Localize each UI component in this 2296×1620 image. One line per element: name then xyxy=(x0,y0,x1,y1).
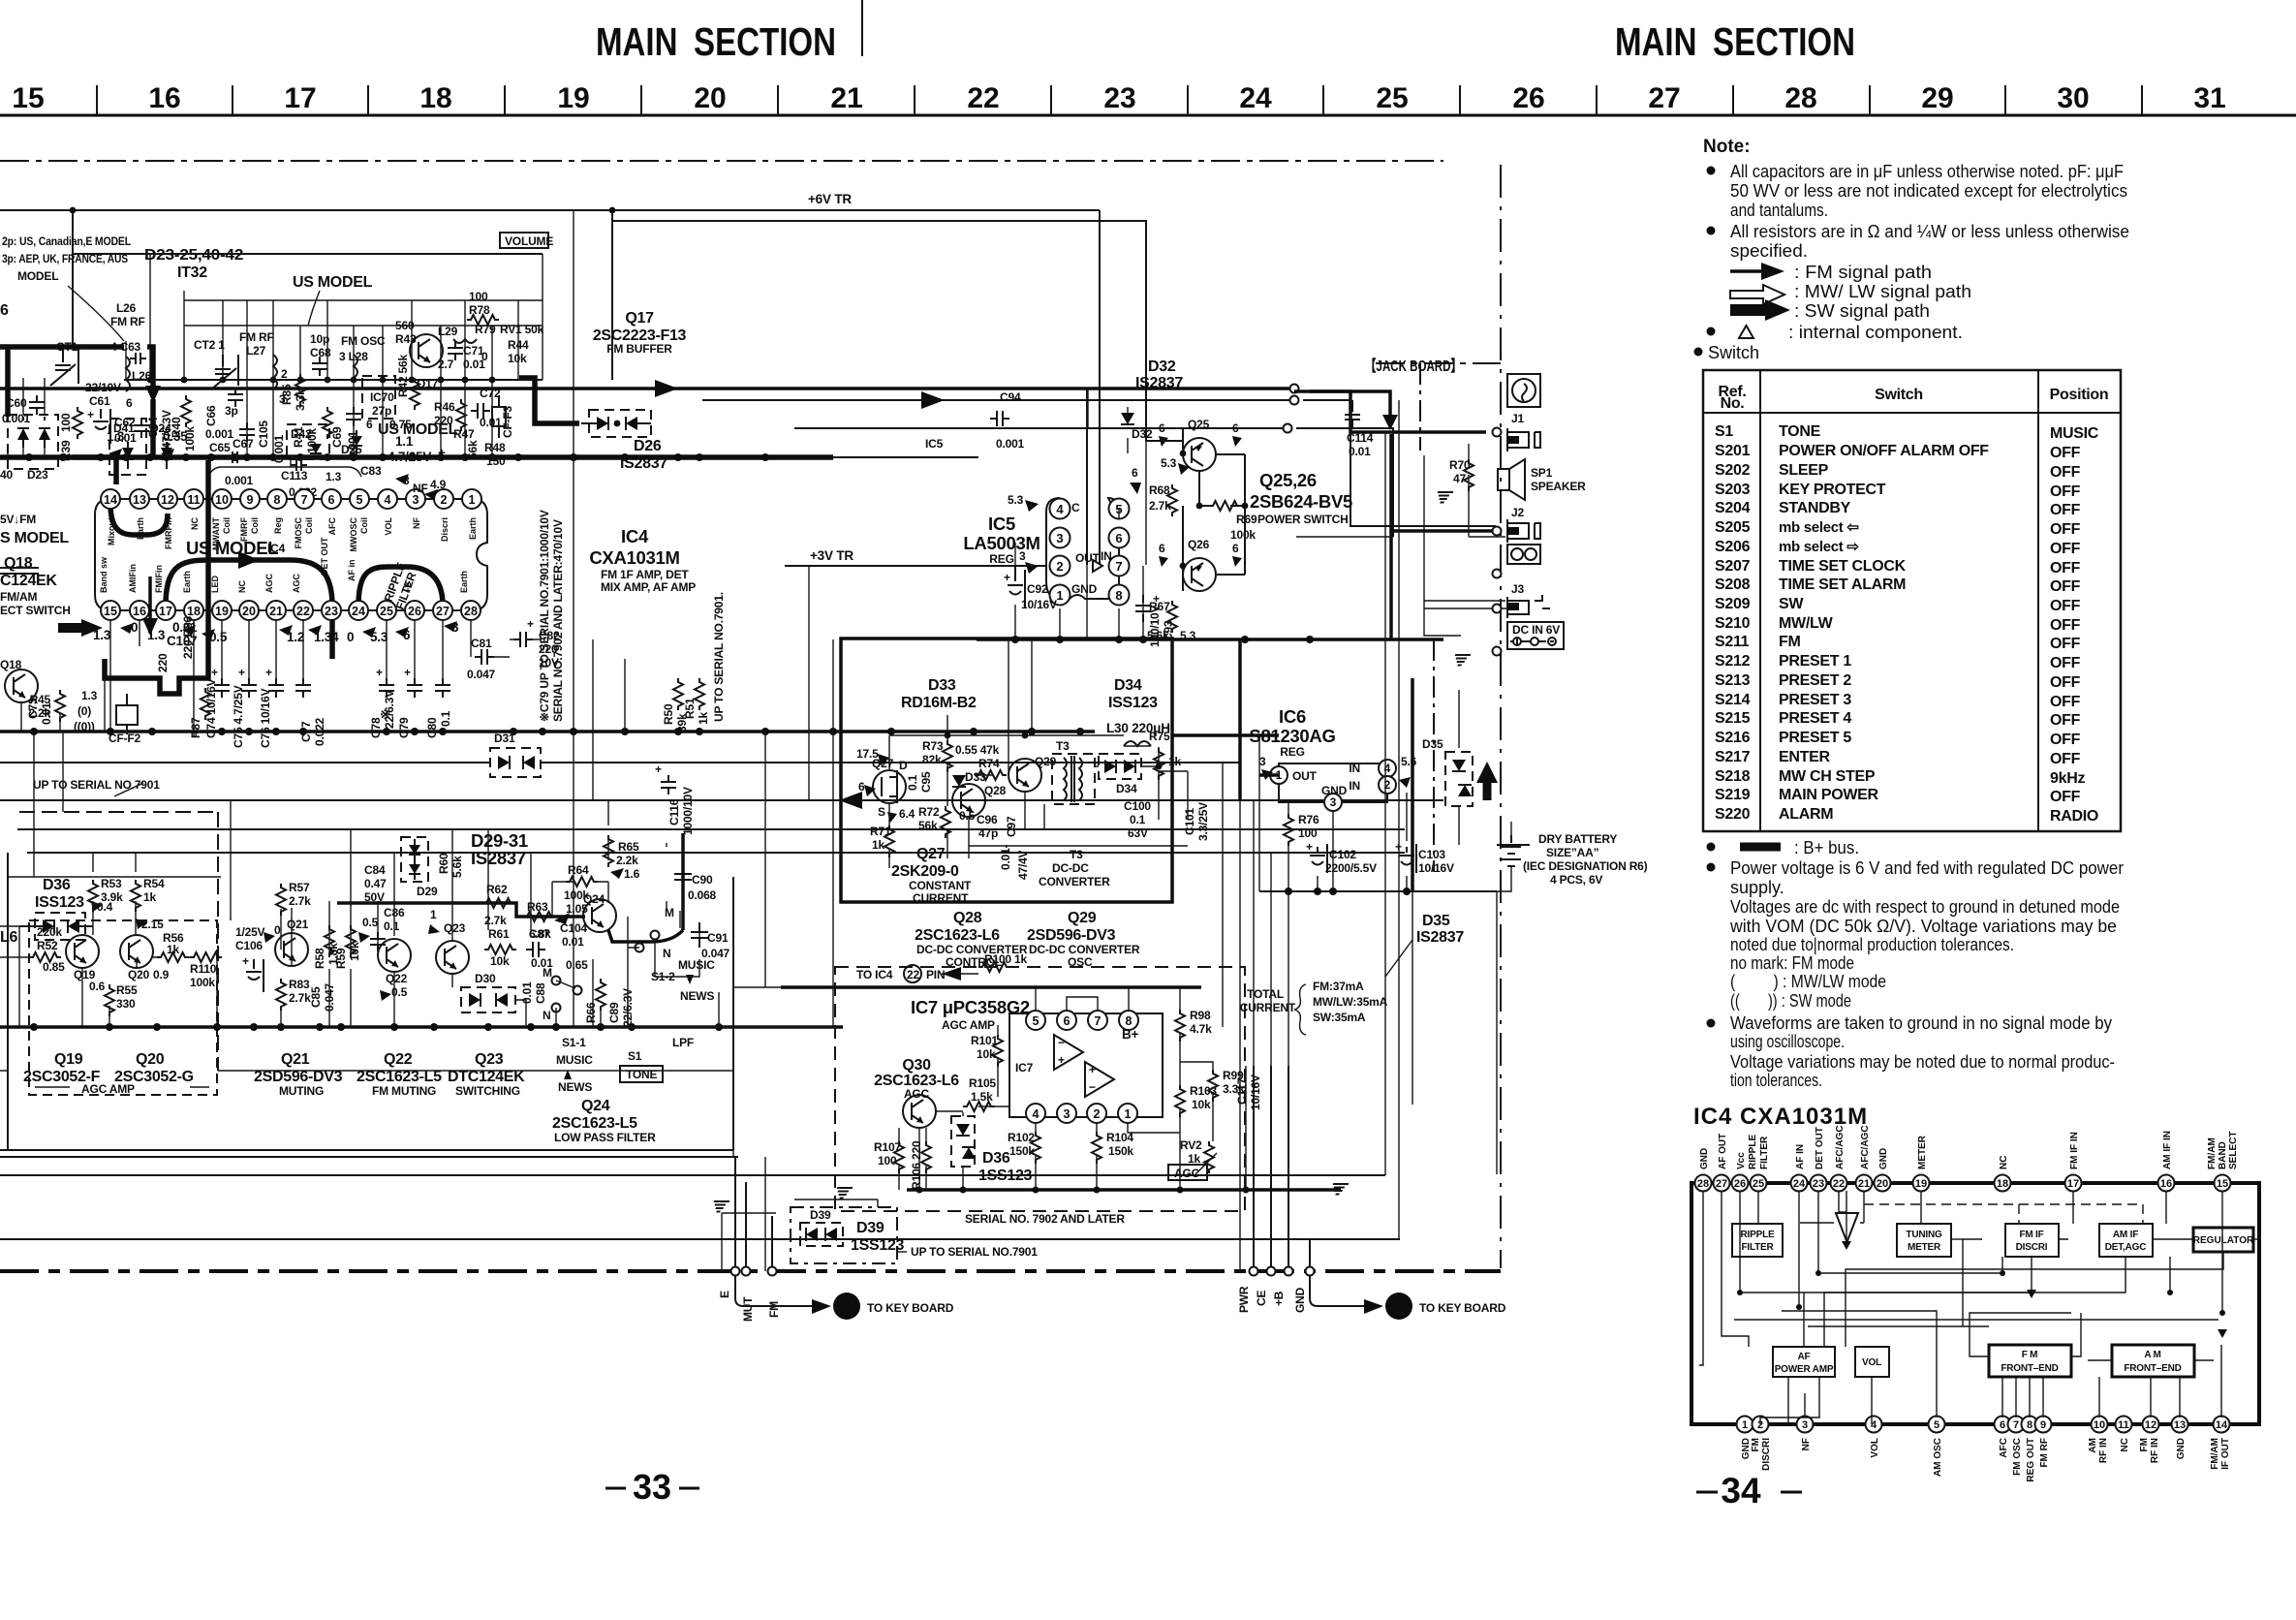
svg-text:2SC1623-L6: 2SC1623-L6 xyxy=(915,927,1000,944)
svg-text:0.1: 0.1 xyxy=(906,774,919,791)
resistor R106 rot xyxy=(921,1141,931,1173)
capacitor C81 xyxy=(467,621,510,681)
svg-text:C117: C117 xyxy=(1235,1077,1249,1105)
thick FM path Q17 to D26 xyxy=(519,378,579,423)
block outer box xyxy=(8,853,733,1150)
svg-text:D32: D32 xyxy=(1148,358,1176,375)
svg-text:S216: S216 xyxy=(1715,730,1751,746)
dash-dot jack verticals xyxy=(1419,363,1421,451)
svg-text:SW: SW xyxy=(1779,596,1804,612)
svg-text:IT32: IT32 xyxy=(177,265,207,281)
resistor R45 xyxy=(55,690,65,722)
svg-text:8: 8 xyxy=(1126,1014,1132,1028)
svg-text:R85: R85 xyxy=(280,384,294,405)
svg-text:10p: 10p xyxy=(310,332,329,346)
svg-text:26: 26 xyxy=(1512,82,1544,114)
svg-text:Q20: Q20 xyxy=(136,1051,165,1068)
svg-text:IF OUT: IF OUT xyxy=(2220,1438,2231,1470)
dashed box D41 xyxy=(109,419,146,475)
svg-text:: SW signal path: : SW signal path xyxy=(1794,301,1930,321)
transistor Q27 fet xyxy=(873,770,906,803)
svg-text:supply.: supply. xyxy=(1730,878,1784,897)
svg-text:1k: 1k xyxy=(1188,1152,1200,1166)
svg-text:Coil: Coil xyxy=(222,517,232,534)
svg-text:6: 6 xyxy=(1064,1014,1070,1028)
svg-text:IC4: IC4 xyxy=(267,542,286,555)
svg-text:C96: C96 xyxy=(977,813,998,826)
svg-text:C105: C105 xyxy=(257,421,270,448)
svg-text:18: 18 xyxy=(419,82,451,114)
svg-text:R41: R41 xyxy=(292,426,305,448)
svg-text:((0)): ((0)) xyxy=(74,720,95,733)
svg-text:mb select ⇦: mb select ⇦ xyxy=(1779,519,1859,536)
resistor R55 xyxy=(105,984,114,1016)
wire B+ thick drops xyxy=(1240,531,1391,800)
resistor R103 xyxy=(1175,1085,1185,1117)
svg-text:T3: T3 xyxy=(1056,739,1070,753)
svg-text:5.6k: 5.6k xyxy=(450,856,464,878)
top pin circles xyxy=(1695,1175,2231,1192)
VOL box xyxy=(1855,1347,1889,1377)
svg-text:IN: IN xyxy=(1349,762,1360,775)
svg-text:4: 4 xyxy=(1033,1107,1039,1121)
svg-text:【JACK BOARD】: 【JACK BOARD】 xyxy=(1365,358,1462,375)
svg-text:C80: C80 xyxy=(425,717,439,738)
wires ic7 xyxy=(781,985,1201,989)
svg-text:2: 2 xyxy=(1094,1107,1101,1121)
resistor R63 xyxy=(523,912,555,921)
svg-text:US MODEL: US MODEL xyxy=(293,274,373,291)
svg-text:C66: C66 xyxy=(204,405,218,426)
svg-text:FM IF: FM IF xyxy=(2019,1230,2043,1240)
svg-text:0.85: 0.85 xyxy=(43,960,65,974)
svg-text:S218: S218 xyxy=(1715,768,1751,785)
svg-text:S1-1: S1-1 xyxy=(562,1036,586,1049)
bottom pin circles xyxy=(1737,1417,2230,1433)
svg-text:D39: D39 xyxy=(856,1220,884,1236)
thick drop from pin23 xyxy=(329,610,335,659)
svg-text:DRY BATTERY: DRY BATTERY xyxy=(1538,832,1617,846)
pin row 2 labels above xyxy=(99,537,469,593)
svg-text:560: 560 xyxy=(395,319,415,332)
resistor R50 xyxy=(662,678,689,732)
svg-text:S220: S220 xyxy=(1715,806,1751,823)
thick bend down from C63 xyxy=(147,347,153,386)
thick MW bus xyxy=(0,454,397,460)
svg-text:0: 0 xyxy=(481,350,488,363)
svg-text:SIZE”AA”: SIZE”AA” xyxy=(1546,846,1599,859)
svg-text:NC: NC xyxy=(190,517,200,530)
resistor R107 xyxy=(894,1141,904,1173)
svg-text:R71: R71 xyxy=(870,825,891,838)
svg-text:6: 6 xyxy=(366,418,373,431)
svg-text:C83: C83 xyxy=(360,464,382,478)
svg-text:Coil: Coil xyxy=(304,517,314,534)
svg-text:1k: 1k xyxy=(1168,755,1181,768)
svg-text:1: 1 xyxy=(1125,1107,1132,1121)
svg-text:OFF: OFF xyxy=(2050,502,2081,518)
opamp triangle 2 xyxy=(1085,1062,1114,1097)
regulator box xyxy=(2193,1228,2253,1252)
wire verticals near center xyxy=(1008,565,1087,734)
big FM arrow into pin15 xyxy=(58,623,85,633)
svg-text:: internal component.: : internal component. xyxy=(1788,323,1963,342)
svg-text:10k: 10k xyxy=(348,942,361,961)
svg-text:13: 13 xyxy=(2174,1419,2186,1431)
svg-text:MAIN SECTION: MAIN SECTION xyxy=(596,19,836,64)
VOLUME box xyxy=(500,233,548,248)
resistor R66 rot xyxy=(596,979,605,1011)
svg-text:NF: NF xyxy=(413,482,428,495)
connector pins E MUT FM xyxy=(718,1157,781,1322)
svg-text:CONVERTER: CONVERTER xyxy=(1039,875,1110,888)
svg-text:R75: R75 xyxy=(1149,730,1170,743)
svg-text:50V: 50V xyxy=(364,890,385,904)
svg-text:0.6: 0.6 xyxy=(89,980,106,993)
transistor Q19 xyxy=(66,935,99,968)
svg-text:(0): (0) xyxy=(78,704,91,718)
CF-F2 filter xyxy=(116,705,138,725)
svg-text:1.3: 1.3 xyxy=(326,470,342,483)
speaker SP1 xyxy=(1498,459,1586,500)
svg-text:2SC1623-L5: 2SC1623-L5 xyxy=(552,1115,637,1132)
svg-text:AFC: AFC xyxy=(327,517,337,536)
svg-text:Q18: Q18 xyxy=(0,658,22,671)
svg-text:20: 20 xyxy=(694,82,726,114)
svg-text:C67: C67 xyxy=(233,437,254,451)
svg-text:3: 3 xyxy=(413,493,419,507)
svg-text:25: 25 xyxy=(1376,82,1408,114)
svg-text:T3: T3 xyxy=(1070,848,1083,861)
svg-text:OFF: OFF xyxy=(2050,712,2081,729)
capacitor C82 xyxy=(510,617,560,670)
wire horizontals upper of Q19 box xyxy=(223,852,1405,854)
svg-text:8: 8 xyxy=(1115,588,1122,603)
svg-text:3.3/25V: 3.3/25V xyxy=(1196,802,1210,841)
svg-text:LPF: LPF xyxy=(672,1036,694,1049)
svg-text:+3V TR: +3V TR xyxy=(810,548,853,563)
svg-text:R101: R101 xyxy=(971,1034,998,1047)
svg-text:17: 17 xyxy=(2067,1178,2079,1190)
svg-text:7: 7 xyxy=(1115,559,1122,574)
svg-text:33: 33 xyxy=(633,1467,671,1507)
svg-text:FM OSC: FM OSC xyxy=(2012,1438,2023,1476)
svg-text:FRONT–END: FRONT–END xyxy=(2001,1363,2058,1374)
svg-text:UP TO SERIAL NO.7901: UP TO SERIAL NO.7901 xyxy=(33,778,160,792)
svg-text:LA5003M: LA5003M xyxy=(963,533,1039,553)
svg-text:19: 19 xyxy=(1915,1178,1927,1190)
svg-text:TIME SET ALARM: TIME SET ALARM xyxy=(1779,576,1906,593)
svg-text:19: 19 xyxy=(557,82,589,114)
svg-text:SLEEP: SLEEP xyxy=(1779,462,1829,479)
svg-text:40: 40 xyxy=(0,468,13,482)
capacitor C106 xyxy=(246,959,264,992)
svg-text:S202: S202 xyxy=(1715,462,1751,479)
svg-text:CF-F3: CF-F3 xyxy=(501,405,514,438)
svg-text:PRESET 1: PRESET 1 xyxy=(1779,653,1851,670)
svg-text:AMIFin: AMIFin xyxy=(128,564,138,593)
svg-text:C89: C89 xyxy=(607,1002,621,1023)
svg-text:R50: R50 xyxy=(662,703,675,725)
svg-text:22: 22 xyxy=(967,82,999,114)
svg-text:SWITCHING: SWITCHING xyxy=(455,1084,520,1098)
svg-text:R78: R78 xyxy=(469,303,490,317)
svg-text:23: 23 xyxy=(325,605,338,618)
svg-text:3: 3 xyxy=(1056,531,1063,545)
svg-text:OFF: OFF xyxy=(2050,464,2081,481)
wires under bus xyxy=(0,800,1443,853)
svg-text:82k: 82k xyxy=(922,753,942,766)
svg-text:0: 0 xyxy=(347,630,354,644)
IC4 outline xyxy=(95,499,487,610)
junction dots tuner xyxy=(147,377,496,384)
svg-text:Coil: Coil xyxy=(250,517,260,534)
svg-text:METER: METER xyxy=(1917,1135,1928,1169)
svg-text:27: 27 xyxy=(1648,82,1680,114)
svg-text:REG: REG xyxy=(1280,745,1304,759)
bottom pin labels (rotated) xyxy=(1741,1438,2231,1482)
resistor R57 xyxy=(276,884,286,916)
svg-text:KEY PROTECT: KEY PROTECT xyxy=(1779,482,1886,498)
svg-text:DISCRI: DISCRI xyxy=(2016,1242,2048,1253)
svg-text:ISS123: ISS123 xyxy=(35,894,84,911)
D39 inner dashed diodes xyxy=(800,1208,843,1246)
resistor R52 xyxy=(29,952,61,962)
svg-text:AGC: AGC xyxy=(1174,1167,1200,1180)
svg-text:0.65: 0.65 xyxy=(566,958,588,972)
IC5 pin circles xyxy=(1050,499,1130,606)
svg-text:Switch: Switch xyxy=(1708,343,1759,362)
svg-text:SERIAL NO.7902 AND LATER:470/1: SERIAL NO.7902 AND LATER:470/10V xyxy=(551,519,565,722)
svg-text:0.047: 0.047 xyxy=(467,668,496,681)
svg-text:Discri: Discri xyxy=(440,517,450,542)
svg-text:※C79 UP TO SERIAL NO.7901:100: ※C79 UP TO SERIAL NO.7901:1000/10V xyxy=(538,510,551,722)
svg-text:D26: D26 xyxy=(634,438,662,454)
svg-text:S207: S207 xyxy=(1715,558,1751,575)
svg-text:31: 31 xyxy=(2193,82,2225,114)
svg-text:Q28: Q28 xyxy=(953,910,982,926)
svg-text:J2: J2 xyxy=(1511,506,1524,519)
svg-text:R48: R48 xyxy=(484,441,506,454)
svg-text:47: 47 xyxy=(1453,472,1466,485)
svg-text:0.75: 0.75 xyxy=(389,418,412,431)
transistor Q18 xyxy=(5,670,38,702)
svg-text:6: 6 xyxy=(126,396,133,410)
svg-text:100k: 100k xyxy=(564,888,589,902)
svg-text:D29: D29 xyxy=(417,885,438,898)
svg-text:FMOSC: FMOSC xyxy=(294,517,303,549)
svg-text:22: 22 xyxy=(296,605,310,618)
svg-text:AGC AMP: AGC AMP xyxy=(942,1018,995,1032)
svg-text:C79: C79 xyxy=(397,717,411,738)
svg-text:C74 10/16V: C74 10/16V xyxy=(204,678,218,738)
svg-text:FM:37mA: FM:37mA xyxy=(1313,980,1364,993)
svg-text:Band sw: Band sw xyxy=(99,556,109,593)
svg-text:R66: R66 xyxy=(584,1002,598,1023)
amp triangle xyxy=(1836,1213,1858,1242)
wire bottom box verticals xyxy=(733,1150,765,1199)
svg-text:PWR: PWR xyxy=(1237,1286,1251,1313)
svg-text:6: 6 xyxy=(1132,466,1138,480)
svg-text:1.5k: 1.5k xyxy=(971,1090,993,1104)
thick C63 drop to bus xyxy=(150,399,156,457)
svg-text:MAIN SECTION: MAIN SECTION xyxy=(1615,19,1855,64)
svg-text:L26: L26 xyxy=(116,301,137,315)
svg-text:MWANT: MWANT xyxy=(211,517,221,550)
svg-text:22/10V: 22/10V xyxy=(85,381,121,394)
svg-text:OFF: OFF xyxy=(2050,751,2081,767)
svg-text:AF: AF xyxy=(1798,1352,1811,1362)
AM front-end box xyxy=(2112,1345,2194,1377)
wire horizontals lower mid xyxy=(8,877,733,1071)
svg-text:21: 21 xyxy=(269,605,283,618)
svg-text:R53: R53 xyxy=(101,877,122,890)
svg-text:R68: R68 xyxy=(1149,483,1170,497)
svg-text:AM IF IN: AM IF IN xyxy=(2162,1131,2173,1169)
svg-text:D30: D30 xyxy=(475,972,496,985)
svg-text:FM: FM xyxy=(767,1301,781,1318)
svg-text:OFF: OFF xyxy=(2050,521,2081,538)
svg-text:D36: D36 xyxy=(982,1150,1010,1167)
svg-text:2.7k: 2.7k xyxy=(289,991,311,1005)
AGC AMP dashed box xyxy=(29,920,217,1095)
svg-text:BAND: BAND xyxy=(2218,1141,2228,1169)
svg-text:C124EK: C124EK xyxy=(0,573,57,589)
svg-text:1000/10V: 1000/10V xyxy=(681,787,695,835)
svg-text:and tantalums.: and tantalums. xyxy=(1730,201,1828,220)
svg-text:Q29: Q29 xyxy=(1068,910,1097,926)
transistor Q21 xyxy=(275,933,308,966)
svg-text:0.068: 0.068 xyxy=(688,888,717,902)
resistor R62 xyxy=(482,898,514,908)
svg-text:FM MUTING: FM MUTING xyxy=(372,1084,436,1098)
svg-text:R79: R79 xyxy=(475,323,496,336)
svg-text:28: 28 xyxy=(1784,82,1816,114)
svg-text:C103: C103 xyxy=(1418,848,1445,861)
diode D41 xyxy=(122,448,134,459)
svg-text:R54: R54 xyxy=(143,877,165,890)
IC6 pins xyxy=(1270,760,1396,811)
resistor R39 xyxy=(73,407,82,439)
svg-text:0.001: 0.001 xyxy=(225,474,254,487)
svg-text:23: 23 xyxy=(1813,1178,1824,1190)
svg-text:0.35: 0.35 xyxy=(163,429,188,444)
svg-text:N: N xyxy=(663,947,670,960)
svg-text:1.3: 1.3 xyxy=(107,429,125,444)
svg-text:6: 6 xyxy=(328,493,335,507)
AF power amp box xyxy=(1773,1347,1835,1377)
D39 outer dashed box xyxy=(791,1207,897,1263)
inner box top xyxy=(73,254,543,349)
svg-text:0.9: 0.9 xyxy=(153,968,170,981)
svg-text:1.3: 1.3 xyxy=(81,689,98,702)
svg-text:C94: C94 xyxy=(1000,390,1021,404)
svg-text:+: + xyxy=(265,666,272,679)
thick FM path into pin 14 xyxy=(73,457,116,484)
svg-text:+: + xyxy=(655,763,662,776)
svg-text:4: 4 xyxy=(385,493,391,507)
svg-text:E: E xyxy=(718,1291,731,1298)
svg-text:26: 26 xyxy=(408,605,421,618)
svg-text:6: 6 xyxy=(858,780,865,794)
internal component legend xyxy=(1707,327,1716,336)
svg-text:FM 1F AMP, DET: FM 1F AMP, DET xyxy=(601,568,689,581)
resistor R53 xyxy=(88,880,98,912)
svg-text:1: 1 xyxy=(1742,1419,1748,1431)
svg-text:IC4: IC4 xyxy=(621,526,649,546)
svg-text:3.9k: 3.9k xyxy=(101,890,123,904)
svg-text:10k: 10k xyxy=(1192,1098,1211,1111)
MW/LW signal path legend xyxy=(1730,285,1784,304)
svg-text:Q27: Q27 xyxy=(916,846,946,862)
svg-text:FM/AM: FM/AM xyxy=(2210,1438,2220,1470)
svg-text:TO KEY BOARD: TO KEY BOARD xyxy=(1419,1301,1506,1315)
svg-text:Q22: Q22 xyxy=(386,972,408,985)
svg-text:PRESET 5: PRESET 5 xyxy=(1779,730,1851,746)
FM signal path arrow 2 xyxy=(702,399,1294,401)
svg-text:OFF: OFF xyxy=(2050,445,2081,461)
svg-text:Q27: Q27 xyxy=(872,757,894,770)
svg-text:R65: R65 xyxy=(618,840,639,854)
svg-text:150k: 150k xyxy=(1009,1144,1035,1158)
top pin labels (rotated) xyxy=(1699,1125,2239,1169)
transistor Q25 xyxy=(1183,438,1216,471)
svg-text:15: 15 xyxy=(2217,1178,2228,1190)
node +6V junction xyxy=(609,207,616,214)
svg-text:VOLUME: VOLUME xyxy=(505,234,553,248)
svg-text:TONE: TONE xyxy=(1779,423,1821,440)
svg-text:5: 5 xyxy=(1033,1014,1039,1028)
svg-text:S206: S206 xyxy=(1715,539,1751,555)
svg-text:7: 7 xyxy=(301,493,308,507)
svg-text:R87: R87 xyxy=(189,717,202,738)
capacitor C79 xyxy=(414,621,416,679)
inductor L26 xyxy=(126,357,130,391)
total current brace xyxy=(1240,940,1412,1035)
capacitor C76 xyxy=(275,621,277,679)
svg-text:SELECT: SELECT xyxy=(2228,1132,2239,1169)
svg-text:R102: R102 xyxy=(1008,1131,1035,1144)
svg-text:27: 27 xyxy=(1716,1178,1727,1190)
svg-text:OFF: OFF xyxy=(2050,636,2081,652)
svg-text:C106: C106 xyxy=(235,939,263,952)
svg-text:R76: R76 xyxy=(1298,813,1319,826)
svg-text:AGC: AGC xyxy=(904,1087,930,1101)
bottom long wires xyxy=(0,1150,1400,1239)
svg-text:18: 18 xyxy=(187,605,201,618)
svg-text:2SB624-BV5: 2SB624-BV5 xyxy=(1250,491,1352,512)
variable cap trimmer xyxy=(50,349,78,386)
resistor R59 xyxy=(346,925,356,957)
wire top-left vertical xyxy=(72,210,74,254)
svg-text:10/16V: 10/16V xyxy=(1418,861,1454,875)
svg-text:S213: S213 xyxy=(1715,672,1751,689)
svg-text:100: 100 xyxy=(878,1154,897,1168)
dashed box D23 diodes left xyxy=(8,415,58,469)
svg-text:9: 9 xyxy=(247,493,254,507)
svg-text:56k: 56k xyxy=(466,440,480,459)
transistor Q28 xyxy=(952,784,985,817)
svg-text:OFF: OFF xyxy=(2050,655,2081,671)
svg-text:RF IN: RF IN xyxy=(2098,1438,2109,1463)
diode D25 xyxy=(351,436,362,446)
svg-text:IC5: IC5 xyxy=(988,514,1015,534)
svg-text:GND: GND xyxy=(1321,784,1348,797)
svg-text:0.5: 0.5 xyxy=(959,809,976,823)
svg-text:R57: R57 xyxy=(289,881,310,894)
inductor L27 xyxy=(273,355,277,389)
resistor R42 xyxy=(410,378,419,410)
